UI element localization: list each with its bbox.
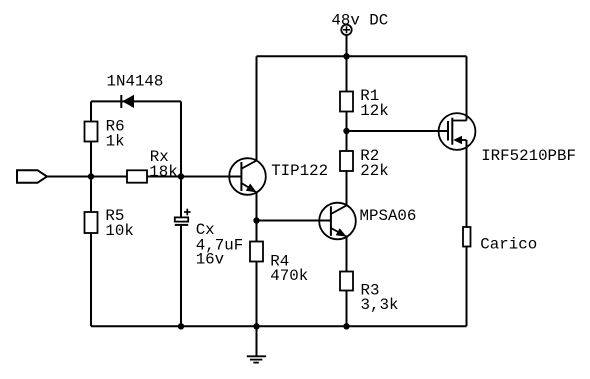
svg-text:16v: 16v: [196, 251, 224, 269]
svg-text:18k: 18k: [149, 163, 177, 181]
svg-text:IRF5210PBF: IRF5210PBF: [481, 147, 576, 165]
svg-text:48v DC: 48v DC: [331, 12, 388, 30]
svg-text:1N4148: 1N4148: [107, 72, 164, 90]
svg-text:22k: 22k: [360, 162, 388, 180]
svg-text:MPSA06: MPSA06: [360, 207, 417, 225]
svg-text:TIP122: TIP122: [271, 162, 328, 180]
svg-text:470k: 470k: [270, 267, 308, 285]
svg-text:12k: 12k: [360, 102, 388, 120]
svg-text:3,3k: 3,3k: [361, 296, 399, 314]
svg-text:1k: 1k: [106, 133, 125, 151]
svg-text:Carico: Carico: [480, 236, 537, 254]
svg-text:10k: 10k: [105, 222, 133, 240]
